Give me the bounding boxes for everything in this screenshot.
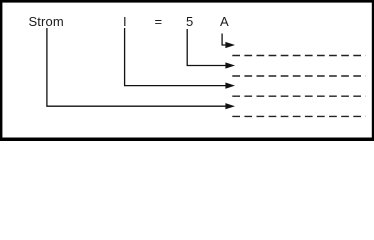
svg-text:Strom: Strom: [29, 14, 64, 29]
svg-text:I: I: [123, 14, 127, 29]
svg-text:=: =: [155, 14, 163, 29]
svg-text:A: A: [220, 14, 229, 29]
svg-text:5: 5: [186, 14, 193, 29]
